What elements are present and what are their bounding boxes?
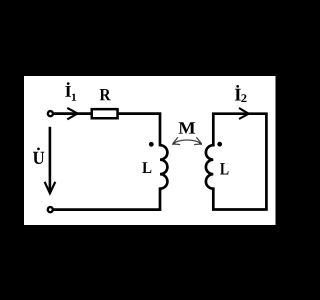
polarity dot of coil L2 [217, 142, 222, 147]
label I2 (phasor dot over I, subscript 2) [235, 85, 247, 102]
mutual arrow tip wedges [172, 142, 176, 146]
wire: left loop top (terminal to resistor) [51, 112, 91, 115]
label R [100, 89, 111, 100]
wire: resistor to top-right corner, then down to coil top [119, 114, 161, 146]
inductor L1 coil (3 bumps bulging right) [160, 145, 167, 189]
polarity dot of coil L1 [149, 142, 154, 147]
current arrow I2 (chevron on wire) [239, 108, 249, 119]
label L (left coil) [142, 162, 151, 173]
wire: right loop rectangle (top, right, bottom sides) [213, 114, 266, 210]
current arrow I1 (chevron on wire) [67, 108, 77, 120]
resistor R body [92, 109, 118, 118]
terminal top-left [48, 111, 53, 116]
mutual inductance curved double arrow [173, 137, 202, 144]
label I1 (phasor dot over I, subscript 1) [65, 82, 76, 100]
inductor L2 coil (3 bumps bulging left) [206, 145, 213, 189]
voltage arrow U (line + chevron head) [45, 127, 56, 194]
wire: coil bottom down to bottom-left corner wire [51, 189, 160, 210]
label M [179, 122, 195, 133]
label U (phasor dot over U) [33, 148, 44, 164]
white schematic card [24, 76, 276, 225]
label L (right coil) [220, 163, 228, 174]
terminal bottom-left [48, 207, 53, 212]
